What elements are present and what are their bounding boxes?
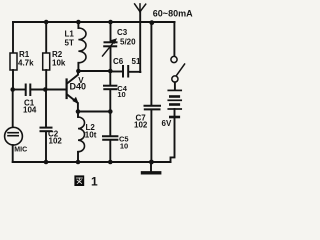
capacitor C7 xyxy=(134,106,160,130)
capacitor C6 xyxy=(113,57,141,77)
wire C4 top xyxy=(109,71,111,85)
wire C3 bottom xyxy=(110,47,112,71)
node C3 top xyxy=(108,20,113,25)
node rail C2 xyxy=(44,160,49,165)
wire top rail xyxy=(13,21,175,23)
svg-text:C3: C3 xyxy=(117,28,128,37)
node L1 top xyxy=(76,20,81,25)
svg-text:102: 102 xyxy=(134,121,148,130)
ground xyxy=(143,162,160,173)
node R2 top xyxy=(44,20,49,25)
capacitor C1 xyxy=(23,85,37,115)
svg-text:60~80mA: 60~80mA xyxy=(153,9,193,19)
battery E 6V xyxy=(162,90,182,128)
wire base row right xyxy=(31,89,66,91)
wire C5 top xyxy=(109,112,111,136)
node base-row left junction xyxy=(10,87,15,92)
wire MIC top xyxy=(12,90,14,128)
capacitor C5 xyxy=(103,135,129,151)
svg-text:D40: D40 xyxy=(70,82,87,92)
wire C2 bottom xyxy=(45,132,47,163)
svg-text:1: 1 xyxy=(91,175,98,189)
node rail C7 xyxy=(149,160,154,165)
svg-text:4.7k: 4.7k xyxy=(18,59,34,68)
svg-text:10: 10 xyxy=(117,90,125,99)
svg-text:10: 10 xyxy=(120,142,128,151)
node emitter junction xyxy=(76,109,81,114)
wire R2 bottom xyxy=(45,70,47,90)
transistor V collector xyxy=(67,71,78,84)
wire emitter row xyxy=(78,111,110,113)
wire collector to C3/C4 node xyxy=(78,70,110,72)
wire base row left xyxy=(13,89,26,91)
antenna xyxy=(135,4,146,72)
node rail C5 xyxy=(108,160,113,165)
svg-text:10k: 10k xyxy=(52,59,66,68)
inductor L2 xyxy=(78,112,97,163)
wire left drop to R1 xyxy=(12,22,14,53)
svg-text:10t: 10t xyxy=(85,131,97,140)
node base junction xyxy=(43,87,48,92)
wire R1 bottom xyxy=(12,70,14,90)
wire battery branch top xyxy=(173,22,175,56)
wire C4 bottom xyxy=(109,90,111,112)
node collector junction xyxy=(76,69,81,74)
svg-text:5T: 5T xyxy=(65,39,74,48)
svg-text:5/20: 5/20 xyxy=(120,38,136,47)
wire C2 top xyxy=(45,90,47,128)
wire MIC bottom xyxy=(12,145,14,162)
variable capacitor C3 xyxy=(103,28,137,56)
node rail L2 xyxy=(76,160,81,165)
capacitor C2 xyxy=(41,128,63,146)
transistor V base bar xyxy=(65,80,67,99)
svg-text:L1: L1 xyxy=(65,30,75,39)
svg-text:104: 104 xyxy=(23,106,37,115)
wire C7 bottom xyxy=(150,110,152,162)
resistor R2 xyxy=(43,50,66,70)
svg-text:C6: C6 xyxy=(113,57,124,66)
wire C7 top xyxy=(150,23,152,106)
wire C6 left xyxy=(111,71,123,73)
transistor V emitter with arrow xyxy=(67,94,78,111)
node C7 top xyxy=(149,20,154,25)
inductor L1 xyxy=(65,22,87,71)
capacitor C4 xyxy=(104,84,128,99)
wire R2 top xyxy=(45,22,47,53)
svg-text:6V: 6V xyxy=(162,119,172,128)
node tank bottom junction xyxy=(108,69,113,74)
microphone MIC xyxy=(5,127,28,153)
caption figure 1 xyxy=(74,175,98,189)
wire bottom rail xyxy=(13,161,171,163)
wire battery bottom xyxy=(171,117,175,162)
node emitter row right xyxy=(108,109,113,114)
wire C5 bottom xyxy=(109,140,111,162)
wire C3 top xyxy=(110,22,112,42)
svg-text:MIC: MIC xyxy=(14,147,27,154)
resistor R1 xyxy=(10,50,34,70)
svg-text:102: 102 xyxy=(49,137,63,146)
wire C6 right up to antenna xyxy=(129,71,141,73)
switch S xyxy=(171,56,185,90)
